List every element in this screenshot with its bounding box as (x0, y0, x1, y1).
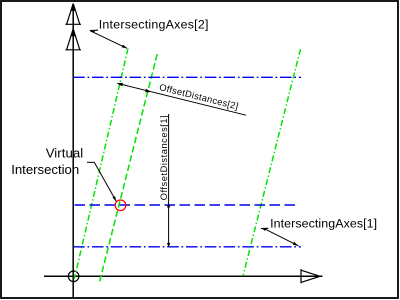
wire leader 3 (87, 162, 116, 201)
wire dimension line OffsetDistances[2] (117, 83, 246, 115)
svg-text:OffsetDistances[1]: OffsetDistances[1] (159, 115, 169, 200)
node leader 1 small arrow (122, 45, 128, 49)
node dim2 left arrow (117, 83, 123, 87)
wire vertical axis Y (72, 4, 74, 298)
node Y-axis arrowhead 1 inner fill (70, 5, 76, 11)
node leader 1 big arrow (90, 29, 98, 31)
node Y-axis arrowhead 2 inner fill (70, 31, 76, 37)
svg-text:Virtual: Virtual (46, 145, 84, 160)
wire blue axis line A (dash-dot, top) (73, 76, 301, 78)
node dim1 bottom arrow (167, 243, 170, 247)
wire green axis line 1 (dash-dot) (74, 49, 128, 280)
svg-text:Intersection: Intersection (11, 162, 79, 177)
node leader 3 arrow (112, 196, 116, 202)
wire horizontal axis X (44, 275, 323, 277)
wire blue axis line C (dash-dot, bottom) (73, 246, 301, 248)
node dim2 right arrow (145, 89, 151, 93)
wire leader 2 (267, 230, 299, 246)
node X-axis arrowhead (open) (301, 269, 320, 283)
node dim1 top arrow (167, 203, 170, 207)
wire green axis line 3 (dash-dot) (243, 49, 301, 276)
node virtual intersection red circle (115, 200, 126, 211)
node leader 2 big arrow (261, 227, 268, 229)
svg-text:IntersectingAxes[1]: IntersectingAxes[1] (270, 217, 377, 231)
node X-axis arrowhead inner fill (315, 274, 321, 278)
node Y-axis arrowhead 2 (open) (65, 29, 81, 50)
wire green axis line 2 (dashed) (99, 54, 157, 284)
node Y-axis arrowhead 1 (open) (65, 4, 81, 25)
wire blue axis line B (dashed, middle) (75, 204, 299, 206)
node leader 2 small arrow (293, 242, 299, 246)
node origin circle (68, 271, 79, 282)
wire dimension line OffsetDistances[1] (168, 114, 170, 247)
wire leader 1 (90, 31, 127, 49)
svg-text:IntersectingAxes[2]: IntersectingAxes[2] (99, 17, 209, 31)
